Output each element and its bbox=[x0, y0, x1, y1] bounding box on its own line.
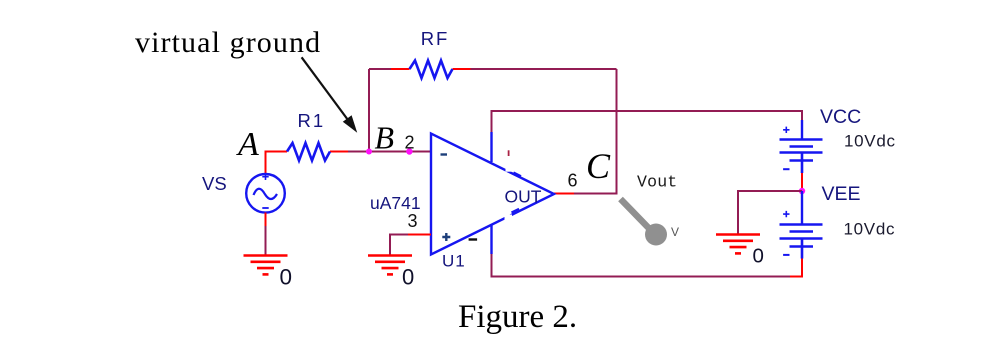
junction dot pin 2 bbox=[406, 148, 412, 154]
wire: bottom power rail bbox=[491, 276, 791, 278]
source VS minus bbox=[262, 207, 268, 209]
svg-text:U1: U1 bbox=[442, 252, 466, 271]
battery VCC minus bbox=[783, 168, 789, 170]
svg-text:0: 0 bbox=[280, 264, 293, 289]
wire: VCC bottom red bbox=[801, 173, 803, 191]
ground VEE bbox=[716, 235, 760, 254]
wire: feedback vertical down to output node C bbox=[616, 69, 618, 194]
svg-text:RF: RF bbox=[421, 28, 450, 49]
svg-text:10Vdc: 10Vdc bbox=[844, 220, 896, 239]
resistor RF bbox=[410, 61, 453, 79]
wire: VS bottom maroon to ground bbox=[265, 226, 267, 256]
svg-text:A: A bbox=[236, 126, 259, 163]
wire: V+ power stub maroon bbox=[491, 111, 493, 132]
wire: V- power stub maroon bbox=[491, 254, 493, 278]
probe Vout bbox=[621, 199, 668, 246]
wire: R1 right red segment bbox=[330, 151, 348, 153]
source VS sine bbox=[254, 189, 278, 199]
op-amp bottom edge dash bbox=[512, 209, 520, 213]
op-amp top edge gap bbox=[506, 165, 514, 172]
resistor R1 bbox=[287, 143, 330, 161]
wire: VS bottom red bbox=[265, 213, 267, 227]
battery VCC plus bbox=[783, 127, 789, 133]
battery VCC top blue stub bbox=[801, 120, 803, 140]
svg-text:uA741: uA741 bbox=[370, 193, 421, 213]
battery VEE plus bbox=[783, 211, 789, 217]
wire: feedback red out of RF bbox=[453, 68, 471, 70]
svg-text:OUT: OUT bbox=[505, 187, 542, 207]
wire: feedback red into RF bbox=[391, 68, 410, 70]
svg-text:Vout: Vout bbox=[637, 173, 677, 192]
wire: bottom rail red corner bbox=[790, 259, 802, 277]
ground pin3 bbox=[368, 256, 412, 275]
annotation arrow to node B bbox=[302, 57, 358, 132]
wire: pin3 red stub bbox=[408, 234, 431, 236]
svg-text:V: V bbox=[671, 225, 679, 239]
wire: feedback top maroon right bbox=[471, 68, 617, 70]
wire: feedback top maroon left bbox=[369, 68, 391, 70]
svg-text:VCC: VCC bbox=[820, 106, 861, 128]
op-amp U1 triangle bbox=[431, 134, 554, 255]
svg-text:R1: R1 bbox=[298, 110, 326, 131]
wire: pin3 maroon to ground bbox=[390, 235, 408, 255]
svg-text:0: 0 bbox=[402, 264, 414, 289]
svg-text:6: 6 bbox=[568, 170, 578, 190]
wire: node A corner (VS top to R1) red bbox=[266, 152, 288, 175]
svg-text:virtual ground: virtual ground bbox=[135, 26, 321, 59]
svg-text:VS: VS bbox=[202, 173, 227, 194]
wire: VEE ground branch maroon bbox=[738, 191, 802, 234]
battery VEE minus bbox=[783, 254, 789, 256]
battery VCC plates bbox=[780, 140, 823, 174]
op-amp V+ pin blue bbox=[490, 132, 492, 162]
source VS circle bbox=[246, 174, 285, 213]
wire: output maroon to node C bbox=[574, 193, 618, 195]
op-amp top edge dash bbox=[514, 173, 522, 177]
wire: op-amp output red stub bbox=[554, 193, 574, 195]
junction dot VCC/VEE bbox=[799, 188, 805, 194]
op-amp inner red tick bbox=[508, 150, 510, 156]
op-amp V- pin blue bbox=[490, 225, 492, 255]
svg-text:Figure 2.: Figure 2. bbox=[458, 299, 577, 335]
junction dot node B bbox=[366, 149, 372, 155]
op-amp bottom edge gap bbox=[505, 215, 513, 222]
svg-text:3: 3 bbox=[408, 211, 418, 231]
op-amp non-inverting input plus bbox=[442, 233, 450, 241]
svg-text:0: 0 bbox=[753, 245, 764, 268]
svg-text:B: B bbox=[375, 120, 395, 156]
wire: feedback vertical from B up bbox=[368, 69, 370, 152]
wire: top power rail bbox=[491, 111, 803, 120]
svg-text:10Vdc: 10Vdc bbox=[844, 132, 896, 151]
op-amp V- black dash bbox=[469, 238, 478, 240]
svg-text:2: 2 bbox=[405, 132, 415, 152]
source VS plus bbox=[262, 174, 268, 181]
ground VS bbox=[244, 256, 288, 275]
op-amp inverting input minus bbox=[441, 153, 448, 155]
svg-text:C: C bbox=[586, 146, 611, 186]
svg-text:VEE: VEE bbox=[822, 183, 861, 205]
wire: B to op-amp pin2 maroon bbox=[348, 151, 431, 153]
battery VEE plates bbox=[780, 225, 823, 259]
battery VEE top blue stub bbox=[801, 191, 803, 225]
